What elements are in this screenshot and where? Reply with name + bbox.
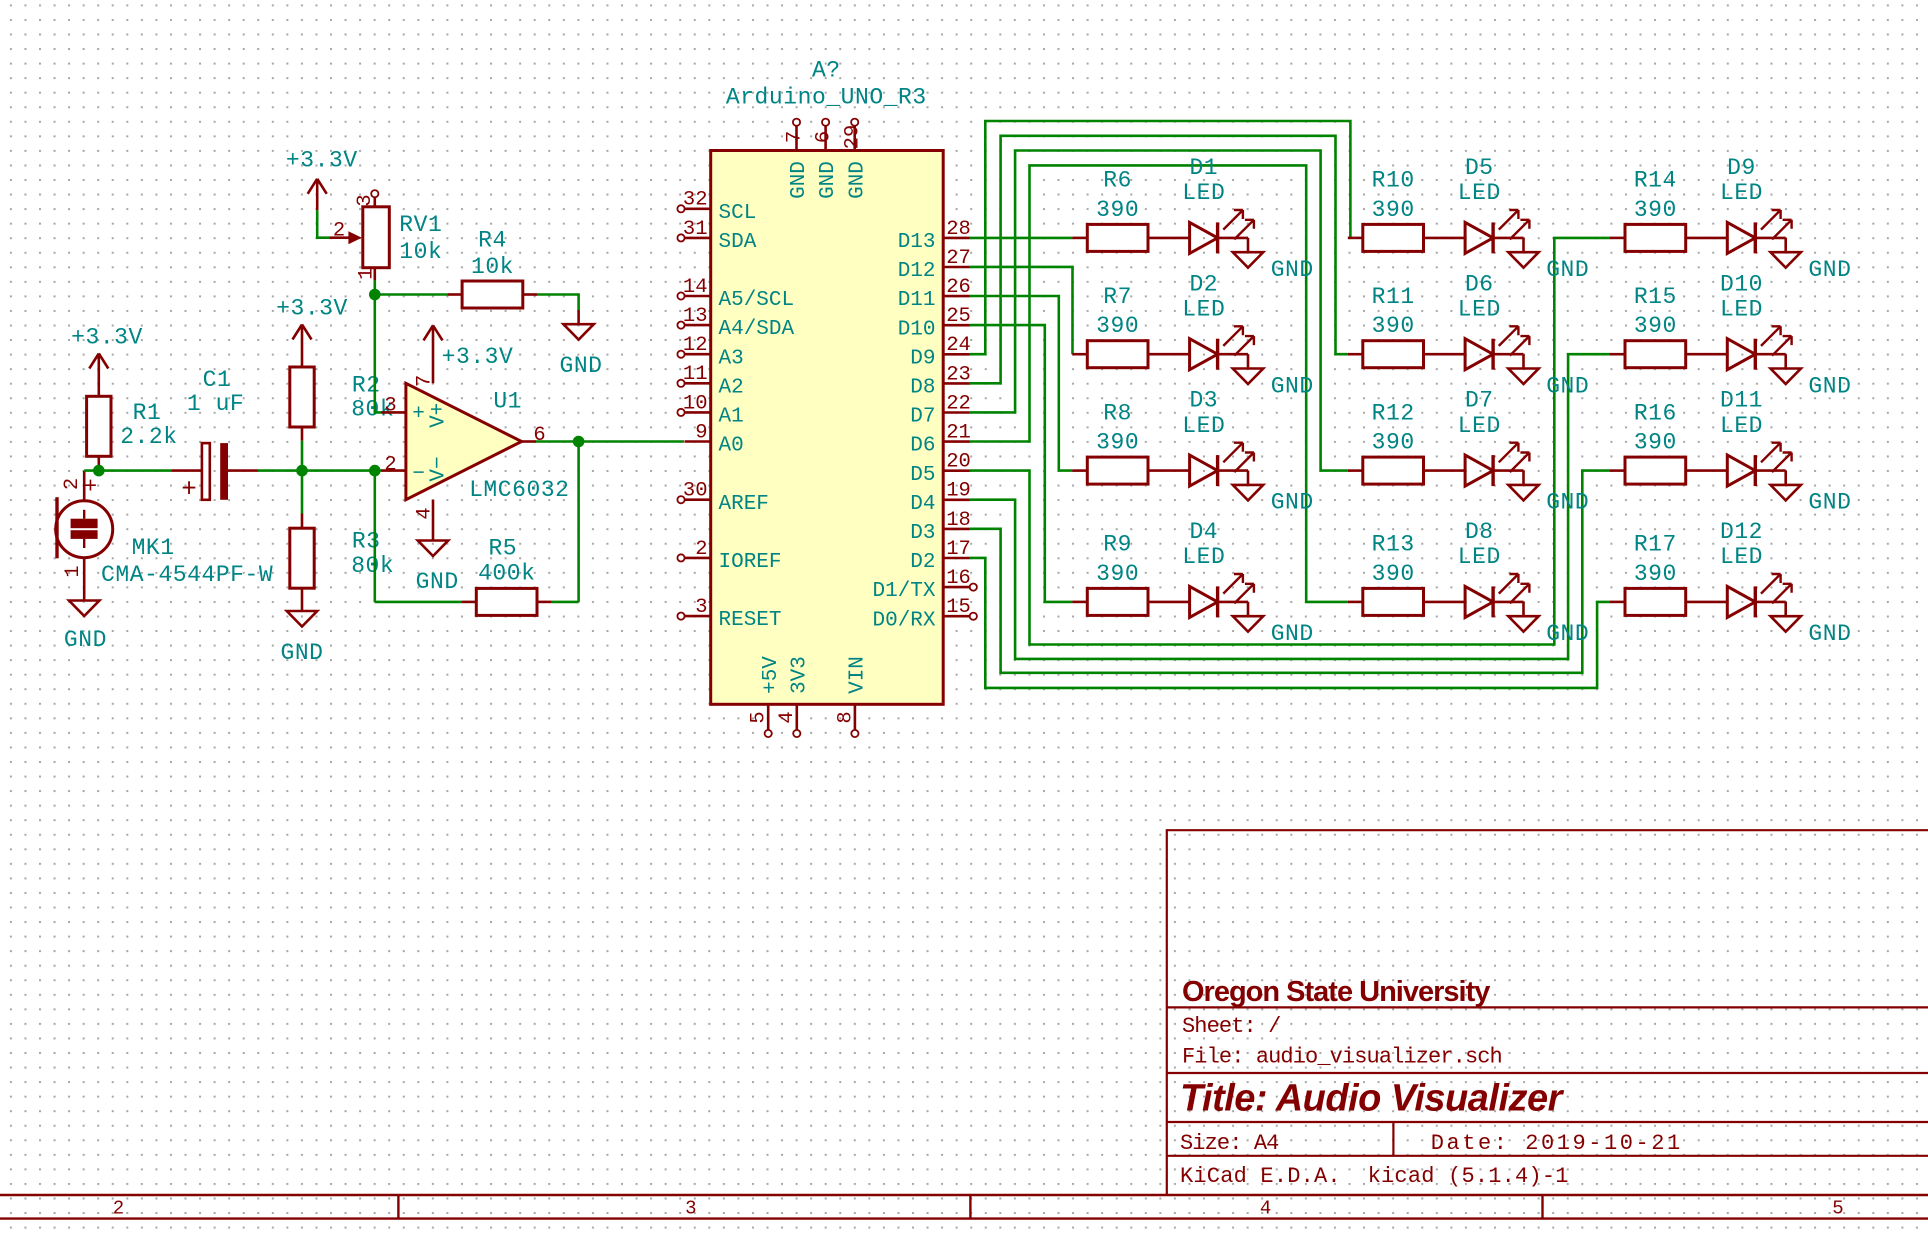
svg-text:1 uF: 1 uF [187,391,244,417]
svg-text:A0: A0 [719,435,744,458]
resistor R16 [1610,469,1625,472]
ground (R3) [287,611,317,627]
svg-text:AREF: AREF [719,493,769,516]
svg-text:10k: 10k [471,254,514,280]
resistor R15 [1610,353,1625,356]
wire inverting node down [373,471,376,602]
svg-text:25: 25 [946,305,971,328]
svg-text:19: 19 [946,480,971,503]
pin 10 A1 [685,411,711,414]
svg-text:R15: R15 [1634,284,1677,310]
resistor R3 [301,471,304,514]
pin 14 A5/SCL [685,295,711,298]
wire C1 to op-amp input [258,469,381,472]
potentiometer RV1 [371,190,378,197]
svg-text:D2: D2 [910,551,935,574]
svg-text:26: 26 [946,276,971,299]
svg-text:GND: GND [416,569,459,595]
resistor R2 [290,367,314,427]
svg-text:390: 390 [1096,197,1139,223]
svg-text:A1: A1 [719,406,744,429]
pin 9 A0 [685,440,711,443]
pin 21 D6 [943,440,970,443]
svg-text:16: 16 [946,567,971,590]
svg-text:A5/SCL: A5/SCL [719,289,795,312]
ground (D5) [1493,237,1523,240]
svg-text:A4/SDA: A4/SDA [719,318,795,341]
svg-text:10: 10 [683,392,708,415]
resistor R5 [462,601,477,604]
LED D2 [1148,353,1190,356]
svg-text:D7: D7 [910,406,935,429]
svg-text:3V3: 3V3 [788,656,811,694]
resistor R14 [1610,237,1625,240]
svg-text:1: 1 [62,565,85,577]
svg-text:4: 4 [413,507,436,519]
LED D8 [1424,601,1466,604]
resistor R17 [1610,601,1625,604]
svg-text:R7: R7 [1103,284,1132,310]
ground (D6) [1493,353,1523,356]
svg-text:D10: D10 [898,318,936,341]
svg-text:RESET: RESET [719,609,782,632]
pin 2 IOREF [685,557,711,560]
pin 15 D0/RX [943,615,970,618]
pin 7 GND top [795,126,798,151]
svg-text:13: 13 [683,305,708,328]
pin 12 A3 [685,353,711,356]
svg-text:D5: D5 [1465,155,1494,181]
pin 31 SDA [685,237,711,240]
svg-text:D6: D6 [910,435,935,458]
svg-text:Sheet: /: Sheet: / [1182,1014,1280,1039]
svg-text:CMA-4544PF-W: CMA-4544PF-W [101,562,273,588]
svg-text:+5V: +5V [760,656,783,694]
svg-text:D3: D3 [1189,388,1218,414]
svg-text:R8: R8 [1103,400,1132,426]
LED D1 [1148,237,1190,240]
node inverting input [369,465,381,477]
svg-text:LED: LED [1182,544,1225,570]
resistor R11 [1348,353,1363,356]
wire feedback bottom [375,601,462,604]
svg-text:R9: R9 [1103,532,1132,558]
svg-text:2: 2 [695,538,707,561]
svg-text:21: 21 [946,422,971,445]
LED D12 [1686,601,1728,604]
svg-text:Oregon State University: Oregon State University [1182,976,1490,1008]
svg-text:SCL: SCL [719,202,757,225]
LED D11 [1686,469,1728,472]
svg-text:+: + [84,474,97,499]
wire D8 to R11 [970,136,1348,383]
svg-text:SDA: SDA [719,231,757,254]
pin 29 GND top [853,126,856,151]
svg-text:6: 6 [533,424,545,447]
wire mic/C1 net [84,469,171,472]
svg-text:Size: A4: Size: A4 [1180,1131,1279,1156]
LED D3 [1148,469,1190,472]
svg-text:10k: 10k [399,239,442,265]
pin 5 +5V bottom [767,704,770,730]
svg-text:+3.3V: +3.3V [442,344,514,370]
wire D7 to R12 [970,151,1348,471]
svg-text:390: 390 [1096,430,1139,456]
svg-text:7: 7 [783,131,806,143]
svg-text:400k: 400k [478,560,535,586]
svg-text:LED: LED [1458,413,1501,439]
svg-text:GND: GND [817,161,840,199]
svg-text:LED: LED [1720,297,1763,323]
svg-text:D10: D10 [1720,271,1763,297]
svg-text:GND: GND [1808,490,1851,516]
pin 11 A2 [685,382,711,385]
svg-text:3: 3 [384,394,396,417]
svg-text:D9: D9 [1727,155,1756,181]
svg-text:GND: GND [280,640,323,666]
ground (D10) [1755,353,1785,356]
svg-text:30: 30 [683,480,708,503]
resistor R13 [1348,601,1363,604]
resistor R4 [448,293,463,296]
svg-text:7: 7 [413,375,436,387]
svg-text:D1: D1 [1189,155,1218,181]
svg-text:Date: 2019-10-21: Date: 2019-10-21 [1431,1131,1683,1156]
power +3.3V (RV1) [308,179,327,194]
wire D13 to R6 [970,237,1072,240]
svg-text:D9: D9 [910,347,935,370]
svg-text:R11: R11 [1372,284,1415,310]
svg-text:D12: D12 [1720,519,1763,545]
svg-text:Arduino_UNO_R3: Arduino_UNO_R3 [726,84,927,110]
pin 8 VIN bottom [854,704,857,730]
svg-text:R14: R14 [1634,168,1677,194]
svg-text:14: 14 [683,276,708,299]
wire feedback down [577,442,580,602]
svg-text:GND: GND [1546,490,1589,516]
svg-text:4: 4 [1260,1197,1271,1219]
pin 30 AREF [685,498,711,501]
svg-text:File: audio_visualizer.sch: File: audio_visualizer.sch [1182,1045,1502,1070]
svg-text:12: 12 [683,334,708,357]
svg-text:R16: R16 [1634,400,1677,426]
svg-text:R5: R5 [488,535,517,561]
svg-text:GND: GND [1808,373,1851,399]
svg-text:+3.3V: +3.3V [71,324,143,350]
svg-text:GND: GND [1271,257,1314,283]
svg-text:D12: D12 [898,260,936,283]
wire D12 to R7 [970,267,1073,354]
wire D9 to R10 [970,121,1351,354]
svg-text:+: + [181,474,197,504]
svg-text:LED: LED [1182,297,1225,323]
pin 27 D12 [943,266,970,269]
node C1/R2 junction [296,465,308,477]
svg-text:5: 5 [1832,1197,1843,1219]
wire D6 to R13 [970,165,1348,602]
svg-text:D1/TX: D1/TX [872,580,935,603]
svg-text:GND: GND [1546,257,1589,283]
svg-text:R3: R3 [352,529,381,555]
svg-text:R2: R2 [352,373,381,399]
op-amp pin4 V- stem [432,500,435,541]
svg-text:80k: 80k [351,553,394,579]
svg-text:390: 390 [1096,561,1139,587]
pin 4 3V3 bottom [795,704,798,730]
svg-text:GND: GND [1546,373,1589,399]
svg-text:LED: LED [1720,544,1763,570]
svg-text:GND: GND [846,161,869,199]
op-amp pin7 V+ stem [424,325,443,340]
svg-text:27: 27 [946,247,971,270]
wire RV1 to R4 node [373,280,376,294]
pin 28 D13 [943,237,970,240]
svg-text:D3: D3 [910,522,935,545]
svg-text:17: 17 [946,538,971,561]
ground (D4) [1218,601,1248,604]
Arduino U A? body [711,151,944,705]
pin 23 D8 [943,382,970,385]
sheet frame bottom [0,1194,1928,1196]
svg-text:A2: A2 [719,376,744,399]
ground (D7) [1493,469,1523,472]
pin 13 A4/SDA [685,324,711,327]
svg-text:R6: R6 [1103,168,1132,194]
svg-text:22: 22 [946,392,971,415]
pin 3 RESET [685,615,711,618]
wire R2 to node [301,441,304,471]
svg-text:+3.3V: +3.3V [276,295,348,321]
resistor R9 [1072,601,1087,604]
svg-text:390: 390 [1372,561,1415,587]
pin 19 D4 [943,498,970,501]
svg-text:24: 24 [946,334,971,357]
svg-text:390: 390 [1096,313,1139,339]
svg-text:3: 3 [354,194,377,206]
svg-text:GND: GND [559,353,602,379]
node R1/mic [93,465,105,477]
wire D11 to R8 [970,296,1072,471]
ground (D11) [1755,469,1785,472]
pin 24 D9 [943,353,970,356]
microphone MK1 [83,471,86,501]
svg-text:U1: U1 [493,388,522,414]
svg-text:4: 4 [776,711,799,723]
svg-text:D4: D4 [1189,519,1218,545]
svg-text:LED: LED [1458,180,1501,206]
svg-text:V−: V− [428,456,451,481]
pin 6 GND top [824,126,827,151]
svg-text:GND: GND [1271,373,1314,399]
resistor R12 [1348,469,1363,472]
node RV1/R4 [369,289,381,301]
pin 20 D5 [943,469,970,472]
svg-text:A3: A3 [719,347,744,370]
svg-text:2: 2 [333,219,345,242]
svg-text:2.2k: 2.2k [120,424,177,450]
svg-text:KiCad E.D.A. kicad (5.1.4)-1: KiCad E.D.A. kicad (5.1.4)-1 [1180,1164,1569,1189]
svg-text:−: − [412,463,425,486]
svg-text:A?: A? [812,57,841,83]
pin 17 D2 [943,557,970,560]
LED D6 [1424,353,1466,356]
wire op-amp output [536,440,684,443]
svg-text:9: 9 [695,421,707,444]
svg-text:LED: LED [1182,413,1225,439]
svg-text:3: 3 [695,596,707,619]
svg-text:R12: R12 [1372,400,1415,426]
LED D7 [1424,469,1466,472]
resistor R6 [1072,237,1087,240]
svg-text:GND: GND [1271,490,1314,516]
svg-text:390: 390 [1634,313,1677,339]
svg-text:RV1: RV1 [399,212,442,238]
svg-text:V+: V+ [428,403,451,428]
ground (D8) [1493,601,1523,604]
svg-text:15: 15 [946,596,971,619]
ground (MK1) [69,601,99,617]
svg-text:1: 1 [355,268,378,280]
pin 26 D11 [943,295,970,298]
svg-text:IOREF: IOREF [719,551,782,574]
svg-text:2: 2 [384,453,396,476]
LED D5 [1424,237,1466,240]
svg-text:390: 390 [1634,197,1677,223]
svg-text:2: 2 [61,478,84,490]
ground (D3) [1218,469,1248,472]
capacitor C1 [172,469,202,472]
svg-text:390: 390 [1372,313,1415,339]
svg-text:31: 31 [683,218,708,241]
ground (U1) [418,541,448,557]
pin 32 SCL [685,208,711,211]
ground (D1) [1218,237,1248,240]
wire node down to op-amp pin3 [375,295,381,413]
svg-text:LED: LED [1720,180,1763,206]
svg-text:R10: R10 [1372,168,1415,194]
svg-text:R17: R17 [1634,532,1677,558]
svg-text:23: 23 [946,363,971,386]
svg-text:LED: LED [1182,180,1225,206]
svg-text:D4: D4 [910,493,935,516]
title block [1167,830,1928,1195]
resistor R7 [1072,353,1087,356]
svg-text:D7: D7 [1465,388,1494,414]
svg-text:D11: D11 [898,289,936,312]
pin 22 D7 [943,411,970,414]
wire D10 to R9 [970,325,1072,602]
wire D2 to R17 [970,558,1610,688]
resistor R1 [87,396,111,456]
svg-text:LED: LED [1458,544,1501,570]
svg-text:29: 29 [842,125,865,150]
svg-text:GND: GND [1808,621,1851,647]
svg-text:LED: LED [1720,413,1763,439]
power +3.3V (R1) [89,354,108,369]
svg-text:R1: R1 [133,400,162,426]
node op-amp output [573,436,585,448]
svg-text:20: 20 [946,451,971,474]
svg-text:D13: D13 [898,231,936,254]
svg-text:+3.3V: +3.3V [286,147,358,173]
svg-text:C1: C1 [203,367,232,393]
svg-text:D0/RX: D0/RX [872,609,935,632]
svg-text:D8: D8 [910,377,935,400]
power +3.3V (R2) [293,325,312,340]
wire node to R4 [375,293,448,296]
svg-text:LMC6032: LMC6032 [469,477,569,503]
svg-text:D5: D5 [910,464,935,487]
svg-text:GND: GND [788,161,811,199]
svg-text:6: 6 [813,131,836,143]
wire R4 to GND [537,295,578,311]
svg-text:2: 2 [113,1197,124,1219]
ground (D2) [1218,353,1248,356]
svg-text:390: 390 [1634,561,1677,587]
LED D10 [1686,353,1728,356]
svg-text:D8: D8 [1465,519,1494,545]
LED D4 [1148,601,1190,604]
svg-text:VIN: VIN [847,656,870,694]
ground (D9) [1755,237,1785,240]
op-amp U1 [406,383,522,499]
svg-text:LED: LED [1458,297,1501,323]
svg-text:390: 390 [1634,430,1677,456]
svg-text:R4: R4 [478,227,507,253]
svg-text:8: 8 [834,711,857,723]
LED D9 [1686,237,1728,240]
svg-text:28: 28 [946,218,971,241]
svg-text:5: 5 [748,711,771,723]
svg-text:GND: GND [1808,257,1851,283]
wire D5 to R14 [970,238,1610,645]
wire +3.3V to RV1 wiper [317,210,329,237]
svg-text:Title: Audio Visualizer: Title: Audio Visualizer [1180,1077,1565,1119]
svg-text:GND: GND [64,627,107,653]
svg-text:+: + [412,403,425,426]
svg-text:390: 390 [1372,197,1415,223]
svg-text:11: 11 [683,363,708,386]
svg-text:MK1: MK1 [132,535,175,561]
svg-text:32: 32 [683,189,708,212]
pin 18 D3 [943,528,970,531]
svg-text:D11: D11 [1720,388,1763,414]
ground (R4) [563,324,593,340]
svg-text:18: 18 [946,509,971,532]
svg-text:D2: D2 [1189,271,1218,297]
svg-text:R13: R13 [1372,532,1415,558]
svg-text:D6: D6 [1465,271,1494,297]
svg-text:GND: GND [1271,621,1314,647]
svg-text:390: 390 [1372,430,1415,456]
resistor R10 [1348,237,1363,240]
svg-text:3: 3 [685,1197,696,1219]
wire D3 to R16 [970,471,1610,673]
ground (D12) [1755,601,1785,604]
wire D4 to R15 [970,354,1610,659]
svg-text:GND: GND [1546,621,1589,647]
pin 25 D10 [943,324,970,327]
resistor R8 [1072,469,1087,472]
pin 16 D1/TX [943,586,970,589]
